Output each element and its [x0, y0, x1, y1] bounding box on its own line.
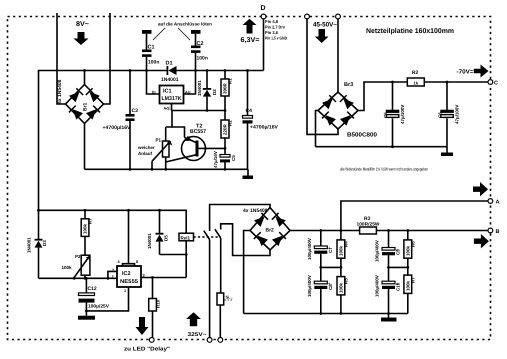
dashed actuator link	[194, 236, 220, 238]
svg-text:R10: R10	[156, 299, 161, 308]
svg-text:Pin 1,5 v GND: Pin 1,5 v GND	[265, 36, 287, 41]
node B	[488, 228, 500, 235]
svg-text:LM317K: LM317K	[162, 96, 182, 102]
svg-text:Br2: Br2	[266, 228, 275, 234]
ground symbol top block	[243, 169, 254, 179]
diode D1 (series in rail)	[161, 61, 179, 84]
svg-text:C5: C5	[383, 112, 388, 118]
wire main rail right of D1	[177, 70, 264, 72]
svg-text:IC2: IC2	[122, 271, 131, 277]
svg-text:4x 1N5408: 4x 1N5408	[57, 79, 63, 104]
wire AC input left x=57	[57, 13, 66, 104]
resistor R10	[149, 278, 161, 338]
svg-text:8: 8	[136, 260, 138, 264]
svg-text:Rel1: Rel1	[181, 236, 191, 241]
svg-text:R7: R7	[411, 277, 416, 283]
capacitor C7	[307, 231, 333, 268]
wire IC1 adj down	[171, 104, 173, 111]
svg-text:1: 1	[124, 289, 126, 293]
svg-text:P1: P1	[156, 138, 162, 143]
svg-text:4x 1N5408: 4x 1N5408	[243, 208, 268, 214]
resistor R1	[221, 69, 233, 110]
fuse Si1	[217, 293, 233, 338]
bridge rectifier Br3	[318, 82, 378, 139]
pad of C2	[191, 30, 201, 34]
svg-text:1N4001: 1N4001	[147, 233, 152, 249]
svg-text:Pin 4,8: Pin 4,8	[265, 19, 279, 24]
wire AC input right x=110	[103, 13, 110, 104]
svg-text:R7: R7	[88, 218, 93, 224]
wire mid link 2	[387, 266, 409, 269]
capacitor C1	[142, 34, 159, 72]
wire rail after R2b to node C	[424, 81, 488, 83]
svg-text:D3: D3	[42, 240, 47, 246]
arrow -70V output (right)	[457, 65, 489, 78]
trimmer P2	[62, 254, 92, 280]
svg-text:100k: 100k	[83, 223, 88, 234]
svg-text:R6: R6	[411, 241, 416, 247]
svg-text:R2: R2	[412, 70, 419, 76]
svg-text:-70V=: -70V=	[457, 69, 475, 76]
capacitor C10	[375, 267, 401, 313]
node 45-50V right	[336, 14, 341, 19]
arrow 45-50V input (down)	[315, 29, 329, 43]
svg-text:6,3V=: 6,3V=	[241, 37, 260, 44]
svg-text:R5: R5	[344, 278, 349, 284]
wire pin3 output	[141, 276, 186, 279]
svg-text:Pin 2,7 Drv: Pin 2,7 Drv	[265, 25, 286, 30]
timer IC2 NE555	[112, 209, 145, 293]
wire adj line	[172, 109, 227, 112]
resistor R5	[337, 277, 349, 314]
svg-text:weicher: weicher	[137, 145, 155, 150]
op-amp/regulator IC1 LM317K box	[152, 86, 191, 111]
resistor R7b	[81, 209, 92, 255]
wire Br3 right vertex up to +rail	[358, 82, 407, 111]
svg-text:Adj: Adj	[164, 107, 170, 111]
svg-text:100R/25W: 100R/25W	[357, 222, 381, 227]
resistor R6	[404, 231, 416, 276]
resistor R2b horizontal	[407, 70, 424, 86]
label 45-50V~	[313, 22, 337, 29]
svg-text:100µ/400V: 100µ/400V	[307, 238, 312, 260]
wire B rail left of R3	[290, 229, 360, 232]
label 8V~ input	[76, 21, 89, 28]
svg-text:47µ/100V: 47µ/100V	[455, 105, 460, 124]
svg-text:2: 2	[112, 275, 114, 279]
svg-text:D5: D5	[164, 235, 169, 241]
wire IC1 output	[184, 71, 196, 95]
svg-text:R1: R1	[228, 78, 233, 84]
node A	[488, 199, 500, 206]
svg-text:1N4001: 1N4001	[161, 77, 179, 83]
svg-text:D: D	[261, 5, 266, 12]
flyback diode D5	[147, 209, 169, 255]
svg-text:auf die Anschlüsse löten: auf die Anschlüsse löten	[158, 22, 212, 27]
zener diode D2	[197, 69, 217, 110]
svg-text:C6: C6	[438, 112, 443, 118]
wire IC1 input	[147, 71, 160, 95]
relay coil Rel1	[179, 233, 194, 277]
svg-text:100n: 100n	[197, 56, 208, 62]
svg-text:100µ/400V: 100µ/400V	[307, 275, 312, 297]
svg-text:B: B	[496, 229, 500, 235]
svg-text:Si...: Si...	[226, 295, 233, 300]
svg-text:C3: C3	[132, 108, 139, 114]
svg-text:NE555: NE555	[120, 279, 138, 285]
svg-text:P2: P2	[75, 254, 81, 259]
svg-text:100n: 100n	[148, 60, 159, 66]
resistor R2	[221, 111, 233, 149]
svg-text:Anlauf: Anlauf	[138, 151, 153, 156]
wire Br3 left vertex down to gnd rail	[316, 111, 319, 147]
svg-text:100µ/25V: 100µ/25V	[88, 304, 109, 309]
transistor T2 BC557	[166, 124, 225, 163]
note pin assignment 4 lines	[265, 19, 287, 41]
resistor R7c	[404, 275, 416, 313]
ground symbol output block	[381, 314, 397, 322]
ground symbol top-right	[441, 147, 453, 156]
svg-text:C4: C4	[246, 108, 253, 114]
node LED delay	[149, 338, 154, 343]
svg-text:47µ/16V: 47µ/16V	[213, 151, 218, 168]
wire Br1 bottom to gnd rail	[84, 124, 86, 170]
resistor R3	[357, 216, 381, 234]
bridge rectifier Br1	[57, 79, 104, 123]
svg-text:D2: D2	[212, 89, 217, 95]
arrow output B (right)	[474, 234, 489, 248]
svg-text:C1: C1	[148, 45, 155, 51]
svg-text:R4: R4	[344, 241, 349, 247]
svg-text:1N4001: 1N4001	[27, 237, 32, 253]
capacitor C6	[438, 81, 460, 147]
node 45-50V left	[305, 14, 310, 19]
svg-text:45-50V~: 45-50V~	[313, 22, 337, 29]
svg-text:47µ/100V: 47µ/100V	[400, 105, 405, 124]
capacitor C3	[103, 69, 139, 171]
node D	[261, 5, 266, 19]
zener diode D3	[27, 210, 48, 278]
svg-text:100k: 100k	[62, 265, 73, 270]
svg-text:1N4001: 1N4001	[197, 80, 202, 96]
arrow 325V input (up)	[186, 312, 206, 338]
svg-text:325V~: 325V~	[188, 332, 207, 338]
svg-text:R2: R2	[228, 120, 233, 126]
svg-text:C: C	[494, 81, 498, 87]
svg-text:alle Widerstände Metallfilm 1%: alle Widerstände Metallfilm 1% 0,6W wenn…	[340, 167, 428, 172]
svg-text:C2: C2	[197, 41, 204, 47]
arrow LED delay (down)	[136, 317, 149, 335]
svg-text:Br1: Br1	[83, 102, 89, 111]
wire node D down to rail	[263, 19, 265, 71]
note mount annotation + leader lines	[153, 22, 212, 41]
resistor R4	[337, 231, 349, 277]
wire bottom rail output block	[244, 312, 408, 315]
node C	[488, 80, 498, 87]
ground symbol C12	[78, 316, 95, 320]
wire gnd rail of top block	[85, 168, 249, 170]
arrow output A (right)	[473, 182, 488, 196]
svg-text:B500C800: B500C800	[347, 132, 378, 139]
svg-text:C12: C12	[88, 286, 97, 292]
arrow 6,3V= output (up)	[241, 19, 260, 44]
svg-text:Netzteilplatine 160x100mm: Netzteilplatine 160x100mm	[366, 27, 454, 35]
note resistors	[340, 167, 428, 172]
svg-text:+4700µ/16V: +4700µ/16V	[103, 125, 132, 131]
arrow 8V input (down)	[74, 32, 89, 45]
capacitor C4	[243, 69, 279, 169]
capacitor C5b	[383, 81, 405, 147]
svg-text:IC1: IC1	[163, 89, 172, 95]
svg-text:+4700µ/16V: +4700µ/16V	[250, 125, 279, 131]
capacitor C8	[307, 267, 333, 313]
svg-text:A: A	[496, 200, 500, 206]
bridge rectifier Br2	[243, 208, 290, 251]
wire T2 emitter tee from adj	[166, 111, 185, 138]
svg-text:Br3: Br3	[344, 82, 353, 88]
wire gnd rail top-right block	[316, 145, 448, 148]
svg-text:C5: C5	[231, 155, 236, 161]
svg-text:D1: D1	[166, 61, 173, 67]
wire Br1 top to rail	[83, 69, 86, 84]
capacitor C5 (47u)	[213, 147, 236, 171]
pad of C1	[142, 30, 152, 34]
svg-text:Pin 3,6: Pin 3,6	[265, 30, 279, 35]
svg-text:100µ/400V: 100µ/400V	[375, 240, 380, 262]
wire pin1 to ground	[85, 287, 129, 312]
relay switch pole 2	[215, 224, 270, 293]
title Netzteilplatine	[366, 27, 454, 35]
relay switch pole 1	[204, 205, 270, 338]
trimmer P1	[137, 127, 172, 171]
node 325V left	[207, 338, 212, 343]
wire mid link 1	[319, 266, 342, 269]
wire node A line	[341, 201, 488, 231]
wire main + rail y=70.5 (left of D1)	[39, 71, 168, 211]
capacitor C2	[191, 34, 208, 72]
wire Br2 left vertex to bottom rail	[244, 231, 250, 314]
capacitor C9	[375, 231, 401, 268]
wire low rail 555 block	[39, 277, 118, 279]
wire 45-50V left branch to Br3 bottom	[307, 19, 338, 134]
svg-text:1k: 1k	[414, 81, 419, 86]
capacitor C12	[79, 277, 110, 316]
wire B rail right of R3	[376, 229, 488, 232]
node 325V right	[218, 338, 223, 343]
wire 45-50V right branch to Br3 top	[337, 19, 339, 92]
svg-text:100µ/400V: 100µ/400V	[375, 275, 380, 297]
label zu LED Delay	[124, 347, 170, 353]
svg-text:BC557: BC557	[190, 129, 206, 135]
wire vcc rail 555 block	[37, 209, 186, 233]
svg-text:zu LED "Delay": zu LED "Delay"	[124, 347, 170, 353]
wire D5 to relay bottom	[160, 253, 188, 256]
wire pin7 link	[107, 271, 118, 279]
svg-text:8V~: 8V~	[76, 21, 89, 28]
